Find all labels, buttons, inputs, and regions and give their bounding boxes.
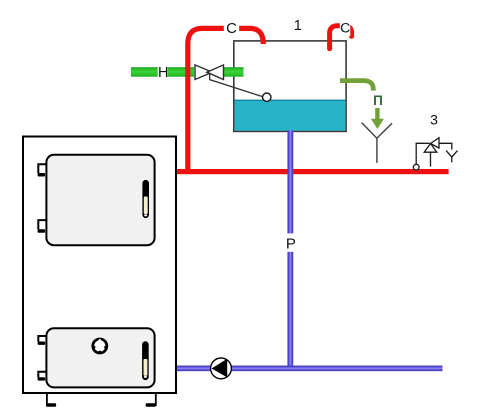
red signal pipe at tank top right (330, 26, 352, 49)
tank water (235, 100, 346, 131)
green feed pipe segment 3 (223, 67, 243, 77)
lower door damper knob (91, 338, 108, 355)
green feed pipe segment 1 (131, 67, 158, 77)
lower door handle (143, 342, 149, 380)
upper door (46, 155, 154, 245)
float ball (263, 93, 271, 101)
upper door handle (143, 180, 149, 217)
boiler left foot (46, 393, 56, 407)
lower door hinge top (38, 336, 47, 345)
safety valve group 3 (416, 138, 457, 167)
upper door hinge bottom (38, 220, 47, 233)
overflow arrow (371, 108, 384, 129)
label C left halo (224, 19, 239, 36)
green feed pipe segment 2 (168, 67, 194, 77)
svg-text:3: 3 (430, 112, 438, 128)
svg-text:Н: Н (158, 65, 168, 81)
label C right halo (340, 19, 351, 36)
boiler body (23, 137, 176, 394)
red supply pipe lower horizontal (177, 169, 449, 174)
float valve (bowtie) (195, 65, 224, 80)
olive overflow pipe (340, 81, 373, 91)
purple return bottom pipe (177, 366, 443, 372)
svg-text:Р: Р (286, 236, 296, 253)
red riser to tank (188, 28, 263, 174)
svg-text:С: С (226, 20, 237, 37)
lower door (46, 328, 154, 387)
safety valve tap circle (413, 164, 419, 170)
purple return riser lower (287, 252, 293, 366)
svg-text:С: С (340, 21, 350, 37)
upper door hinge top (38, 164, 47, 176)
boiler right foot (146, 393, 156, 407)
lower door hinge bottom (38, 372, 47, 381)
float arm (210, 72, 263, 96)
purple return riser upper (287, 130, 293, 233)
drain funnel (362, 123, 393, 163)
expansion tank 1 (234, 41, 346, 131)
svg-text:П: П (373, 93, 383, 108)
pump (211, 358, 232, 379)
svg-text:1: 1 (294, 18, 302, 34)
